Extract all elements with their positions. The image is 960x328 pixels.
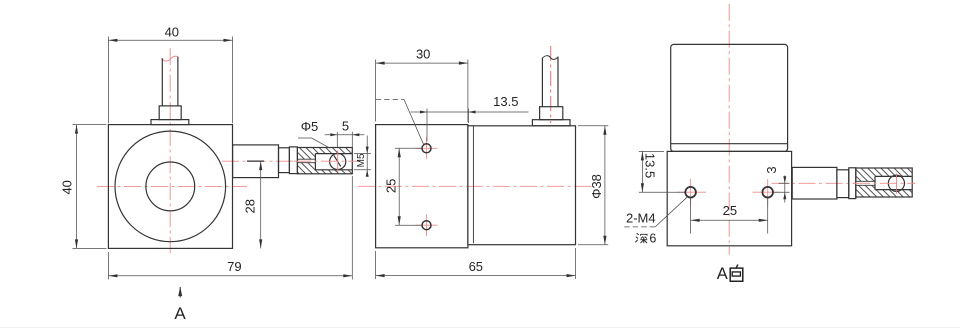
svg-text:3: 3 bbox=[764, 166, 779, 173]
svg-text:28: 28 bbox=[243, 199, 258, 213]
svg-text:5: 5 bbox=[342, 119, 349, 134]
svg-text:Φ5: Φ5 bbox=[301, 119, 319, 134]
svg-text:A: A bbox=[717, 265, 728, 283]
svg-text:A: A bbox=[174, 304, 186, 323]
svg-text:Φ38: Φ38 bbox=[589, 174, 604, 199]
svg-text:40: 40 bbox=[165, 25, 179, 40]
svg-text:40: 40 bbox=[60, 180, 75, 194]
svg-text:13.5: 13.5 bbox=[493, 94, 518, 109]
svg-text:25: 25 bbox=[723, 203, 737, 218]
svg-text:6: 6 bbox=[649, 231, 656, 245]
svg-text:30: 30 bbox=[416, 47, 430, 62]
svg-text:65: 65 bbox=[469, 259, 483, 274]
svg-text:M5: M5 bbox=[356, 153, 367, 167]
svg-text:79: 79 bbox=[227, 259, 241, 274]
svg-text:13.5: 13.5 bbox=[642, 153, 657, 178]
svg-text:2-M4: 2-M4 bbox=[626, 211, 656, 226]
svg-text:25: 25 bbox=[383, 179, 398, 193]
